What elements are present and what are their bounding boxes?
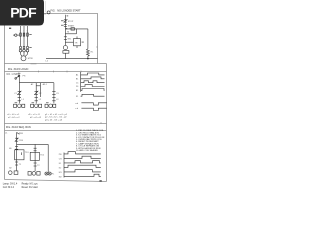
label above coil K1 bbox=[15, 101, 18, 104]
tick above fig2 bottom border bbox=[100, 122, 102, 123]
contact LS1 on branch1 lower bbox=[18, 98, 21, 101]
svg-text:c-d: c-d bbox=[75, 108, 78, 110]
svg-text:STOP: STOP bbox=[68, 21, 74, 23]
contactor contacts M (power) bbox=[20, 46, 29, 48]
resistor RL (heater) bbox=[87, 49, 90, 59]
svg-text:Reset: R 2 start: Reset: R 2 start bbox=[22, 186, 39, 189]
wire: branch 1 bbox=[18, 83, 20, 104]
overload relay OL box bbox=[63, 51, 69, 59]
contact CR5 on rail bbox=[15, 147, 18, 150]
coil K3 group bbox=[45, 104, 56, 108]
svg-text:g2 - h2 = k2 + m2 - p2: g2 - h2 = k2 + m2 - p2 bbox=[45, 117, 67, 119]
disconnect switch DS circle bbox=[13, 34, 19, 36]
timing trace PB bbox=[64, 152, 101, 154]
label left of start contact bbox=[61, 25, 64, 26]
svg-text:TR: TR bbox=[75, 42, 78, 44]
mini timing trace T2 bbox=[81, 108, 106, 110]
contact CR2 on branch2 bbox=[34, 91, 38, 95]
svg-text:PDF: PDF bbox=[10, 5, 37, 21]
auxiliary contact M (seal-in) bbox=[65, 28, 76, 34]
contact K3a on branch bbox=[34, 148, 37, 151]
tick text above fig2 border bbox=[31, 63, 37, 64]
contact CR1 on branch1 bbox=[17, 91, 21, 95]
caption of figure 2 bbox=[8, 68, 29, 71]
label 2 near top of rail bbox=[67, 15, 69, 16]
svg-text:10. AND COIL SEALED: 10. AND COIL SEALED bbox=[76, 149, 98, 152]
wire: branch 2b bbox=[39, 83, 41, 97]
figure 3 border box bbox=[5, 131, 107, 182]
junction node on branch bbox=[66, 28, 68, 29]
contact LS2 on branch2 lower bbox=[35, 98, 38, 101]
svg-text:d2 - e2 = f2: d2 - e2 = f2 bbox=[30, 117, 42, 119]
equation text row 1 bbox=[7, 114, 40, 116]
coil M bbox=[63, 46, 67, 50]
wire: branch 2a bbox=[35, 83, 37, 104]
svg-text:Coil: M 2.4: Coil: M 2.4 bbox=[3, 187, 15, 189]
timing trace K1 bbox=[64, 161, 101, 163]
stop pushbutton PB1 bbox=[64, 19, 68, 22]
wire: feed rail fig2 bbox=[19, 82, 54, 84]
fuse 2FU on phase wires bbox=[20, 33, 29, 36]
timing trace E1 bbox=[81, 89, 105, 91]
terminal tick labels on phase wires bbox=[20, 30, 32, 48]
figure 2 border box bbox=[5, 72, 107, 124]
PDF badge bbox=[0, 0, 44, 26]
wire: seal-in branch top bbox=[65, 28, 88, 30]
control wire: vertical rail bbox=[64, 15, 66, 46]
junction mark bottom-right of fig3 bbox=[99, 180, 101, 182]
timing trace C1 bbox=[81, 81, 105, 83]
timer TR box bbox=[65, 36, 80, 48]
timing diagram 2 labels bbox=[59, 154, 63, 179]
timer block TD2 bbox=[30, 152, 39, 160]
label above coil K2 bbox=[32, 101, 35, 104]
legend text below fig3 row2 bbox=[3, 186, 38, 189]
svg-text:Lamp: ON 1.4: Lamp: ON 1.4 bbox=[3, 184, 18, 186]
notes text block fig3 bbox=[76, 130, 105, 147]
caption of figure 3 bbox=[6, 126, 31, 129]
fuse F1 on L1 rail bbox=[47, 11, 50, 14]
tick on fig1 right border bbox=[96, 46, 97, 48]
coil K1 group bbox=[14, 104, 25, 108]
node label marks left bbox=[9, 28, 11, 29]
timing diagram 2 axis bbox=[63, 153, 65, 178]
timer block TD1 bbox=[15, 150, 24, 160]
label right of TR box bbox=[82, 42, 84, 43]
contact CR3 on branch3 bbox=[52, 91, 55, 94]
motor M1 bbox=[21, 56, 26, 61]
svg-text:FIG. 30-16 SEQ. RUN: FIG. 30-16 SEQ. RUN bbox=[6, 126, 31, 129]
pilot lamps PL1 PL2 bbox=[45, 172, 51, 175]
timing trace F1 bbox=[81, 94, 105, 96]
wire: jumper branch2 bbox=[36, 85, 40, 87]
coil M2 group bbox=[28, 172, 40, 176]
auxiliary contact TR1 on rail bbox=[64, 37, 67, 40]
svg-text:MTR: MTR bbox=[28, 58, 33, 60]
svg-text:START: START bbox=[68, 25, 75, 28]
svg-text:Ready: M 1 cyc: Ready: M 1 cyc bbox=[22, 184, 39, 186]
mini timing trace T1 bbox=[81, 103, 106, 105]
caption above figure 1 bbox=[51, 10, 82, 13]
wire: bottom rail L2 bbox=[46, 58, 98, 60]
pilot switch S1 bbox=[15, 75, 20, 83]
legend text below fig3 row1 bbox=[3, 184, 39, 186]
three-phase supply wires L1 L2 L3 bbox=[21, 26, 28, 46]
svg-text:d1 + e1 = f1: d1 + e1 = f1 bbox=[28, 114, 40, 116]
wire: main rail fig3 bbox=[16, 132, 18, 170]
contact LS3 on branch3 lower bbox=[52, 98, 55, 101]
coil K2 group bbox=[31, 104, 42, 108]
wire: connector fig1 box to outer right border bbox=[5, 64, 107, 131]
figure 1 border box bbox=[5, 14, 98, 64]
svg-text:g3 = k3 - m3 + p3: g3 = k3 - m3 + p3 bbox=[45, 120, 63, 122]
label left of stop contact bbox=[61, 20, 64, 21]
svg-text:M: M bbox=[67, 32, 69, 34]
overload heaters OL bbox=[19, 49, 29, 56]
svg-text:a1 + b1 = c1: a1 + b1 = c1 bbox=[7, 114, 20, 116]
switch PB3 bbox=[17, 132, 20, 134]
timing trace M1 bbox=[64, 170, 101, 172]
timing trace CR bbox=[64, 156, 101, 158]
wire: small vertical mark right of badge bbox=[45, 1, 47, 12]
timing diagram 1 labels bbox=[76, 74, 79, 93]
svg-text:FIG. 30-15 LOGIC: FIG. 30-15 LOGIC bbox=[8, 68, 29, 71]
svg-text:g1 + h1 = k1 + m1 - p1: g1 + h1 = k1 + m1 - p1 bbox=[45, 114, 68, 116]
timing trace D1 bbox=[81, 85, 105, 87]
svg-text:FIG.: FIG. bbox=[51, 10, 56, 13]
timing trace K2 bbox=[64, 165, 101, 167]
contact CR4 on rail bbox=[15, 138, 19, 142]
timing diagram 1 axis bbox=[80, 72, 82, 92]
lamp dots bbox=[46, 173, 50, 174]
equation text row 2 bbox=[8, 117, 42, 119]
timing trace A1 bbox=[81, 73, 105, 75]
wire: branch to TD2 bbox=[34, 144, 36, 171]
svg-text:NO LOADED START: NO LOADED START bbox=[57, 10, 81, 13]
wire: right leg down bbox=[87, 29, 89, 49]
svg-text:a2 - b2 = c2: a2 - b2 = c2 bbox=[8, 117, 20, 119]
label above coil K3 bbox=[46, 101, 49, 104]
contact K1b on rail bbox=[15, 162, 18, 165]
contact K2b on branch bbox=[34, 163, 37, 166]
timing trace M2 bbox=[64, 174, 101, 176]
wire: crossover fig3 bbox=[17, 144, 49, 172]
coil CR circle bbox=[9, 171, 18, 175]
junction dot at rail bbox=[87, 58, 89, 60]
wire: branch 3 bbox=[53, 83, 55, 104]
start pushbutton PB2 bbox=[64, 24, 67, 26]
timing trace B1 bbox=[81, 77, 105, 79]
label right of branch bbox=[70, 28, 72, 29]
tick marks on fig2 top border bbox=[38, 71, 81, 73]
